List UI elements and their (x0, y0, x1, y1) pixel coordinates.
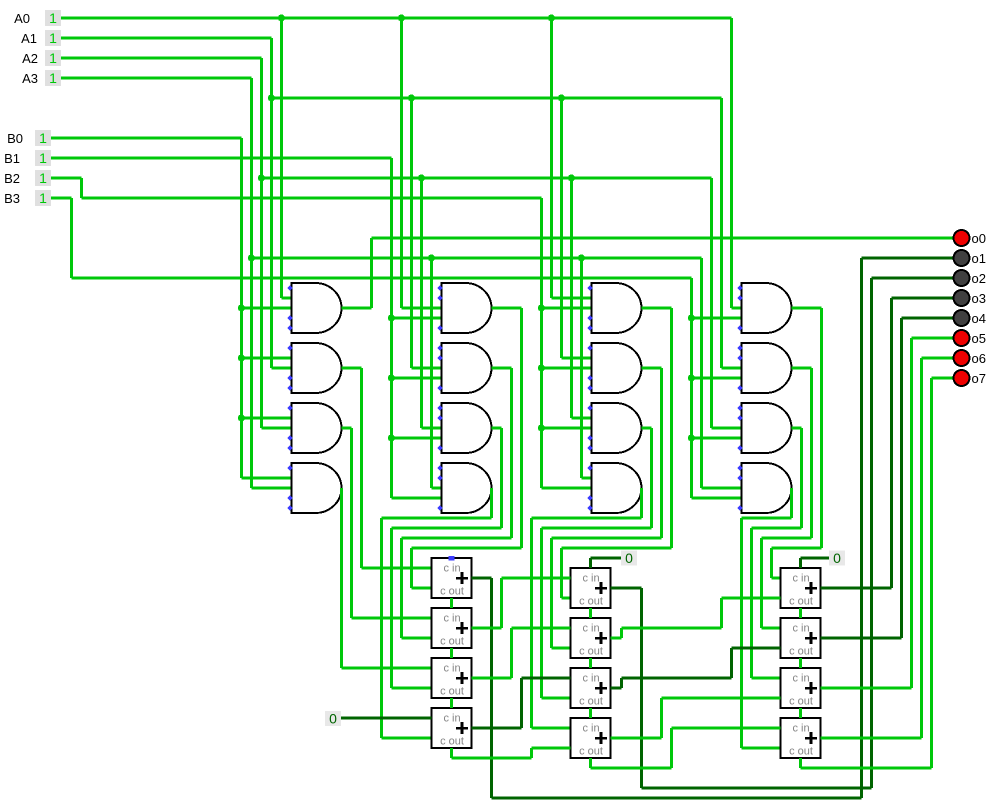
unconnected input of AND gate G14 (287, 465, 292, 470)
unconnected input of AND gate G33 (587, 435, 592, 440)
unconnected input of AND gate G42 (737, 355, 742, 360)
unconnected input of AND gate G31 (587, 285, 592, 290)
wire G43 cross (752, 526, 802, 529)
input pin B1 (4, 150, 51, 166)
adder U33 (stage3 bit3) (781, 668, 821, 708)
wire A2 drop col1 (260, 58, 263, 428)
wire G34 drop (640, 488, 643, 518)
svg-text:c out: c out (579, 746, 603, 758)
wire G21 drop (520, 308, 523, 548)
wire adder13 to adder22 (512, 626, 571, 629)
wire A2 drop col4 (710, 178, 713, 428)
unconnected input of AND gate G24 (437, 505, 442, 510)
wire A0 drop col2 (400, 18, 403, 308)
wire G32 cross (552, 536, 662, 539)
wire constant0 stage3 v (799, 558, 802, 568)
wire G14 drop (340, 488, 343, 668)
svg-text:c in: c in (792, 573, 809, 585)
wire gate input (272, 366, 292, 369)
svg-text:0: 0 (625, 550, 633, 566)
unconnected input of AND gate G14 (287, 505, 292, 510)
unconnected input of AND gate G21 (437, 325, 442, 330)
svg-text:B3: B3 (4, 191, 20, 206)
adder U14 (stage1 bit4) (432, 708, 472, 748)
wire adder14 cout to adder24 (532, 746, 571, 749)
wire G24 cross (382, 516, 492, 519)
svg-text:1: 1 (39, 170, 47, 186)
wire adder24 cout drop (589, 758, 592, 768)
adder U13 (stage1 bit3) (432, 658, 472, 698)
input pin A2 (22, 50, 61, 66)
wire o7 riser (930, 378, 933, 768)
input pin A0 (14, 10, 61, 26)
svg-text:c out: c out (579, 696, 603, 708)
wire G24 to adder14 B (382, 736, 432, 739)
wire adder22 riser (720, 598, 723, 628)
wire G24 final (380, 518, 383, 738)
junction B0 g12 (238, 354, 245, 361)
unconnected input of AND gate G33 (587, 445, 592, 450)
wire B1 row (51, 156, 392, 159)
wire adder24 sum (611, 736, 662, 739)
wire G44 to adder34 B (742, 746, 781, 749)
AND gate G14 (292, 463, 342, 513)
svg-text:o4: o4 (972, 311, 986, 326)
wire gate input (702, 486, 742, 489)
junction A1 col3 (558, 94, 565, 101)
wire G23 to adder13 B (392, 686, 432, 689)
wire G41 final (770, 548, 773, 578)
wire A3 drop col1 (250, 78, 253, 488)
wire gate input (692, 316, 742, 319)
svg-text:c in: c in (443, 563, 460, 575)
wire adder22 sum (611, 636, 622, 639)
wire G22 cross (402, 536, 512, 539)
wire adder24 to adder33 (662, 696, 781, 699)
LED o1 (954, 250, 986, 266)
junction B2 g32 (538, 364, 545, 371)
unconnected input of AND gate G43 (737, 445, 742, 450)
wire G42 out (792, 366, 812, 369)
adder U11 (stage1 bit1) (432, 558, 472, 598)
wire adder23 row (622, 677, 732, 680)
svg-text:A1: A1 (21, 31, 37, 46)
unconnected input of AND gate G22 (437, 355, 442, 360)
wire gate input (242, 356, 292, 359)
wire adder34 cout drop (799, 758, 802, 768)
svg-text:B0: B0 (7, 131, 23, 146)
wire B3 stub (51, 196, 72, 199)
wire A2 drop col2 (420, 178, 423, 428)
junction A3 col2 (428, 254, 435, 261)
constant 0 for stage3 carry-in (829, 550, 845, 566)
unconnected input of AND gate G32 (587, 385, 592, 390)
wire A0 row (61, 16, 732, 19)
junction B0 g13 (238, 414, 245, 421)
wire adder22 jog (620, 628, 623, 638)
wire A3 pin row (61, 76, 252, 79)
wire G33 final (540, 528, 543, 698)
unconnected input of AND gate G22 (437, 385, 442, 390)
wire o1 stub (862, 257, 954, 260)
adder U34 (stage3 bit4) (781, 718, 821, 758)
wire adder21 sum (611, 587, 642, 590)
unconnected input of AND gate G12 (287, 345, 292, 350)
wire G34 cross (532, 516, 642, 519)
wire o6 riser (920, 358, 923, 738)
svg-text:o0: o0 (972, 231, 986, 246)
svg-text:c in: c in (582, 573, 599, 585)
wire adder14 cout drop (450, 748, 453, 758)
AND gate G34 (592, 463, 642, 513)
svg-text:c in: c in (443, 663, 460, 675)
wire G32 final (550, 538, 553, 648)
wire G43 to adder33 A (752, 676, 781, 679)
svg-text:c out: c out (440, 686, 464, 698)
wire B3 row (72, 276, 692, 279)
svg-text:B2: B2 (4, 171, 20, 186)
unconnected input of AND gate G31 (587, 315, 592, 320)
wire gate input (552, 296, 592, 299)
LED o6 (954, 350, 986, 366)
wire A3 drop col3 (580, 258, 583, 478)
svg-text:1: 1 (39, 150, 47, 166)
input pin B2 (4, 170, 51, 186)
unconnected input of AND gate G11 (287, 315, 292, 320)
wire G33 to adder23 B (542, 696, 571, 699)
svg-text:c in: c in (792, 673, 809, 685)
svg-text:c in: c in (582, 673, 599, 685)
AND gate G21 (442, 283, 492, 333)
wire product bit0 to o0 (372, 236, 954, 239)
svg-text:c out: c out (789, 646, 813, 658)
junction B3 g41 (688, 314, 695, 321)
svg-text:c out: c out (579, 596, 603, 608)
wire A3 drop col2 (430, 258, 433, 488)
wire B2 drop (540, 198, 543, 488)
unconnected input of AND gate G31 (587, 325, 592, 330)
svg-text:c in: c in (582, 723, 599, 735)
junction A2 col2 (418, 174, 425, 181)
svg-text:1: 1 (49, 50, 57, 66)
wire gate input (432, 486, 442, 489)
wire gate input (412, 366, 442, 369)
input pin A1 (21, 30, 61, 46)
junction B3 g42 (688, 374, 695, 381)
wire o1 riser (860, 258, 863, 798)
svg-text:B1: B1 (4, 151, 20, 166)
wire G32 drop (660, 368, 663, 538)
wire G32 to adder22 B (552, 646, 571, 649)
wire adder13 sum (472, 676, 512, 679)
svg-text:o2: o2 (972, 271, 986, 286)
wire gate input (692, 376, 742, 379)
wire adder23 jog (620, 678, 623, 688)
wire adder12 sum (472, 626, 502, 629)
wire G11 riser (370, 238, 373, 308)
svg-text:c out: c out (440, 636, 464, 648)
wire B2 stub (51, 176, 82, 179)
unconnected input of AND gate G41 (737, 295, 742, 300)
svg-text:A0: A0 (14, 11, 30, 26)
unconnected input of AND gate G24 (437, 475, 442, 480)
svg-text:c out: c out (789, 746, 813, 758)
wire gate input (252, 486, 292, 489)
wire o7 stub (932, 376, 954, 379)
unconnected input of AND gate G14 (287, 495, 292, 500)
wire gate input (262, 426, 292, 429)
wire G31 final (560, 548, 563, 598)
wire G33 cross (542, 526, 652, 529)
wire gate input (582, 476, 592, 479)
wire gate input (562, 356, 592, 359)
junction B2 g33 (538, 424, 545, 431)
junction B1 g23 (388, 434, 395, 441)
svg-text:1: 1 (49, 10, 57, 26)
wire A2 row (262, 176, 712, 179)
wire A0 drop col4 (730, 18, 733, 308)
unconnected input of AND gate G11 (287, 325, 292, 330)
wire G42 drop (810, 368, 813, 538)
wire carry chain stage3 (799, 658, 802, 668)
LED o0 (954, 230, 986, 246)
unconnected input of AND gate G41 (737, 325, 742, 330)
unconnected input of AND gate G32 (587, 375, 592, 380)
AND gate G31 (592, 283, 642, 333)
AND gate G13 (292, 403, 342, 453)
wire G34 final (530, 518, 533, 728)
wire adder23 to adder32 (732, 647, 781, 650)
wire adder14 to adder23 (522, 677, 571, 680)
wire adder22 row (622, 626, 722, 629)
wire gate input (392, 376, 442, 379)
wire G13 out (342, 426, 352, 429)
AND gate G32 (592, 343, 642, 393)
svg-text:c in: c in (792, 623, 809, 635)
AND gate G41 (742, 283, 792, 333)
unconnected input of AND gate G32 (587, 345, 592, 350)
adder U31 (stage3 bit1) (781, 568, 821, 608)
wire G44 drop (790, 488, 793, 518)
svg-text:A3: A3 (22, 71, 38, 86)
unconnected input of AND gate G41 (737, 285, 742, 290)
junction B2 g31 (538, 304, 545, 311)
wire G21 cross (412, 546, 522, 549)
wire adder34 sum (821, 736, 922, 739)
svg-text:c out: c out (440, 736, 464, 748)
wire G43 drop (800, 428, 803, 528)
wire adder24 cout riser (670, 728, 673, 768)
svg-text:1: 1 (49, 70, 57, 86)
unconnected input of AND gate G44 (737, 505, 742, 510)
unconnected input of AND gate G33 (587, 405, 592, 410)
wire o2 drop (640, 588, 643, 788)
wire gate input (242, 476, 292, 479)
wire adder24 cout row (591, 766, 672, 769)
wire o5 riser (910, 338, 913, 688)
unconnected carry-in of adder U11 (449, 556, 455, 560)
unconnected input of AND gate G11 (287, 285, 292, 290)
wire o2 bottom (642, 787, 872, 790)
unconnected input of AND gate G21 (437, 285, 442, 290)
svg-text:o5: o5 (972, 331, 986, 346)
wire B2 jog (80, 178, 83, 198)
unconnected input of AND gate G13 (287, 445, 292, 450)
wire gate input (542, 366, 592, 369)
junction A1 col2 (408, 94, 415, 101)
wire adder33 sum (821, 686, 912, 689)
LED o3 (954, 290, 986, 306)
unconnected input of AND gate G44 (737, 465, 742, 470)
input pin A3 (22, 70, 61, 86)
wire o2 stub (872, 277, 954, 280)
wire G12 drop (360, 368, 363, 568)
junction A3 col3 (578, 254, 585, 261)
wire G23 final (390, 528, 393, 688)
constant 0 for stage2 carry-in (621, 550, 637, 566)
AND gate G42 (742, 343, 792, 393)
wire A1 drop col3 (560, 98, 563, 358)
wire B0 drop (240, 138, 243, 478)
wire adder14 cout row (452, 756, 532, 759)
unconnected input of AND gate G22 (437, 345, 442, 350)
wire adder34 cout row (801, 766, 932, 769)
junction B3 g43 (688, 434, 695, 441)
wire G33 out (642, 426, 652, 429)
wire constant0 stage2 h (591, 557, 622, 560)
wire o3 stub (892, 297, 954, 300)
wire gate input (542, 486, 592, 489)
wire gate input (542, 306, 592, 309)
input pin B3 (4, 190, 51, 206)
wire o1 bottom (492, 797, 862, 800)
wire G23 cross (392, 526, 502, 529)
wire gate input (242, 416, 292, 419)
wire carry chain stage2 (589, 608, 592, 618)
wire B0 row (51, 136, 242, 139)
adder U12 (stage1 bit2) (432, 608, 472, 648)
wire adder23 riser (730, 648, 733, 678)
svg-text:c out: c out (440, 586, 464, 598)
svg-text:1: 1 (49, 30, 57, 46)
junction B1 g22 (388, 374, 395, 381)
junction A0 col3 (548, 14, 555, 21)
junction A2 row (258, 174, 265, 181)
unconnected input of AND gate G13 (287, 435, 292, 440)
wire A3 row (252, 256, 702, 259)
wire G33 drop (650, 428, 653, 528)
wire G41 out (792, 306, 822, 309)
wire gate input (732, 306, 742, 309)
junction A3 row (248, 254, 255, 261)
unconnected input of AND gate G24 (437, 465, 442, 470)
wire G41 drop (820, 308, 823, 548)
AND gate G22 (442, 343, 492, 393)
AND gate G11 (292, 283, 342, 333)
wire o6 stub (922, 356, 954, 359)
wire G31 to adder21 B (562, 596, 571, 599)
wire G24 drop (490, 488, 493, 518)
wire B2 row (82, 196, 542, 199)
LED o2 (954, 270, 986, 286)
unconnected input of AND gate G21 (437, 295, 442, 300)
wire G32 out (642, 366, 662, 369)
wire G23 out (492, 426, 502, 429)
wire G31 drop (670, 308, 673, 548)
wire A0 drop col3 (550, 18, 553, 298)
wire G41 cross (772, 546, 822, 549)
unconnected input of AND gate G34 (587, 465, 592, 470)
svg-text:0: 0 (329, 711, 337, 727)
svg-text:c in: c in (582, 623, 599, 635)
svg-text:o7: o7 (972, 371, 986, 386)
wire carry chain stage1 (450, 648, 453, 658)
wire G22 final (400, 538, 403, 638)
unconnected input of AND gate G34 (587, 495, 592, 500)
AND gate G44 (742, 463, 792, 513)
wire o2 riser (870, 278, 873, 788)
wire gate input (392, 316, 442, 319)
wire constant0 to adder14 A (341, 717, 432, 720)
unconnected input of AND gate G42 (737, 385, 742, 390)
junction A1 row (268, 94, 275, 101)
wire G21 final (410, 548, 413, 588)
junction B0 g11 (238, 304, 245, 311)
wire gate input (422, 426, 442, 429)
wire A2 pin row (61, 56, 262, 59)
wire A1 drop col4 (720, 98, 723, 368)
wire A1 drop col2 (410, 98, 413, 368)
wire gate input (572, 416, 592, 419)
wire gate input (392, 436, 442, 439)
wire adder23 sum (611, 687, 622, 690)
wire G14 to adder13 A (342, 666, 432, 669)
LED o5 (954, 330, 986, 346)
AND gate G12 (292, 343, 342, 393)
adder U23 (stage2 bit3) (571, 668, 611, 708)
wire A0 drop col1 (280, 18, 283, 298)
wire adder12 riser (500, 578, 503, 628)
adder U22 (stage2 bit2) (571, 618, 611, 658)
svg-text:c in: c in (792, 723, 809, 735)
wire adder14 cout jog (530, 748, 533, 758)
adder U24 (stage2 bit4) (571, 718, 611, 758)
wire adder14 sum (472, 727, 522, 730)
wire adder22 to adder31 (722, 596, 781, 599)
junction A0 col2 (398, 14, 405, 21)
wire carry chain stage2 (589, 708, 592, 718)
wire G42 final (760, 538, 763, 628)
wire adder12 to adder21 (502, 576, 571, 579)
wire adder11 sum (472, 577, 492, 580)
junction A0 col1 (278, 14, 285, 21)
unconnected input of AND gate G43 (737, 405, 742, 410)
unconnected input of AND gate G23 (437, 415, 442, 420)
wire constant0 stage2 v (589, 558, 592, 568)
adder U21 (stage2 bit1) (571, 568, 611, 608)
wire o3 riser (890, 298, 893, 588)
AND gate G33 (592, 403, 642, 453)
wire gate input (282, 296, 292, 299)
svg-text:1: 1 (39, 190, 47, 206)
wire adder14 riser (520, 678, 523, 728)
svg-text:1: 1 (39, 130, 47, 146)
wire A1 row (272, 96, 722, 99)
wire A3 drop col4 (700, 258, 703, 488)
wire G43 out (792, 426, 802, 429)
svg-text:c in: c in (443, 613, 460, 625)
svg-text:o6: o6 (972, 351, 986, 366)
